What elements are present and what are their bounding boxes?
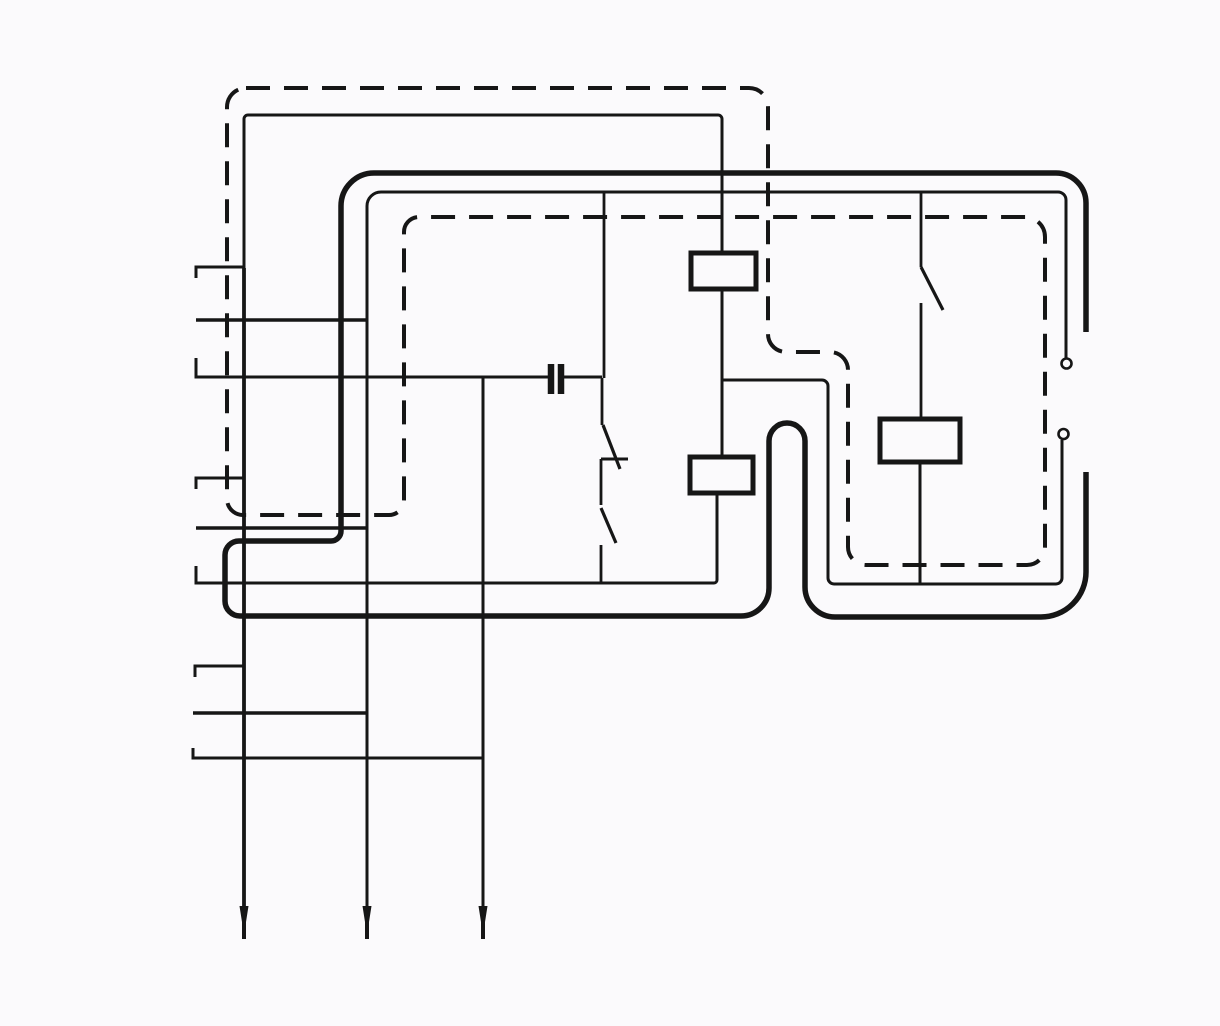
wire: KM coil bottom to node on 220V return [919,462,922,584]
K2 relay NC contact blade (1) [603,425,620,469]
K2 NC contact fixed bar [601,458,628,461]
wire: SB pair2 mid wire y=528 [196,526,367,530]
wire: SB pair3 bottom wire y=758 [193,748,483,758]
wire: phase feed 3 vertical (x=482) down to arrow [482,378,485,933]
wire: K2 contact(3-4) upper stub from node on inner line [920,193,923,267]
wire: SB pair1 bottom wire y=377 with capacitor leads [196,358,602,377]
wire: K2 NC contact upper stub [601,378,604,425]
arrow: bottom of feed 3 [479,906,488,939]
K2 contact blade (3) [921,267,943,310]
wire: SB pair3 mid wire y=713 [193,711,367,715]
terminal: ~220V lower [1059,429,1069,439]
arrow: bottom of feed 1 [240,906,249,939]
wire: capacitor/K2-contact branch vertical top stub from inner line [603,192,606,378]
wire: thick 220V supply loop (outer), with left jog, bottom run, hairpin and right stub [225,173,1086,617]
wire: K2 contact lower stub (4) down to KM coil [920,303,923,419]
K2 relay NO contact blade (2) [601,508,616,543]
wire: SB pair1 mid wire y=320 [196,318,367,322]
wire: SB pair2 bottom wire y=583 to K2 contact node and K2 coil bottom [196,493,717,583]
arrow: bottom of feed 2 [363,906,372,939]
wire: inner supply line from ~220V upper terminal across top and down to bottom arrow (phase feed 2) [367,192,1066,933]
wire: node(721,380) right, down, to KM bottom wire and up to ~220V lower terminal [721,380,1062,584]
wire: K2 NO contact lower stub to node 2 [600,545,603,584]
wire: location-1 wire from SB node up, across top, down to K1 coil [244,115,722,268]
wire: SB pair3 top wire y=666 [195,666,244,677]
wire: K1 coil to K2 coil vertical with node at y=380 [721,289,724,457]
wire: SB pair1 top wire y=267 [196,267,244,278]
terminal: ~220V upper [1062,359,1072,369]
wire: phase feed 1 vertical (x=244) down to arrow [242,268,246,933]
K2 relay coil box [690,457,753,493]
capacitor C1 plates [551,364,561,394]
KM contactor coil box [880,419,960,462]
wire: stub between K2 contacts [600,459,603,505]
wire: SB pair2 top wire y=478 [196,478,244,489]
K1 relay coil box [691,253,756,289]
wire: dashed location-boundary loop (closed, self-crossing) [227,88,1045,565]
